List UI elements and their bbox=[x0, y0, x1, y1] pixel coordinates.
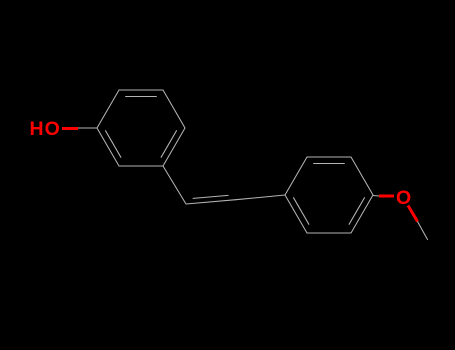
svg-text:O: O bbox=[396, 187, 411, 209]
chain double bond CH=CH second line bbox=[193, 195, 228, 198]
bond O-CH3 red half bbox=[408, 206, 418, 222]
ring2 double bond inner line (left-bottom edge) bbox=[294, 198, 309, 225]
chain bond CH-Ar2 single bbox=[236, 195, 285, 200]
ring1 double bond inner line (right-bottom edge) bbox=[161, 131, 176, 158]
ring1 double bond inner line (top edge) bbox=[126, 96, 157, 98]
bond HO red half bbox=[62, 127, 78, 130]
chain double bond CH=CH main line bbox=[186, 200, 236, 204]
benzene ring 2 (anisole ring) outline bbox=[285, 157, 373, 233]
ring2 double bond inner line (top edge) bbox=[314, 163, 345, 165]
benzene ring 1 (phenol ring) outline bbox=[97, 90, 185, 166]
bond C-OH (white half of HO bond) bbox=[78, 127, 97, 129]
bond O-CH3 (white half) bbox=[418, 222, 428, 240]
svg-text:HO: HO bbox=[30, 118, 61, 140]
chain bond Ar-CH single bbox=[163, 166, 186, 204]
bond ring2-O (white half) bbox=[373, 195, 379, 198]
ring1 double bond inner line (left-bottom edge) bbox=[106, 131, 121, 158]
ring2 double bond inner line (right-bottom edge) bbox=[349, 198, 364, 225]
bond O-ring2 red half bbox=[379, 195, 394, 198]
